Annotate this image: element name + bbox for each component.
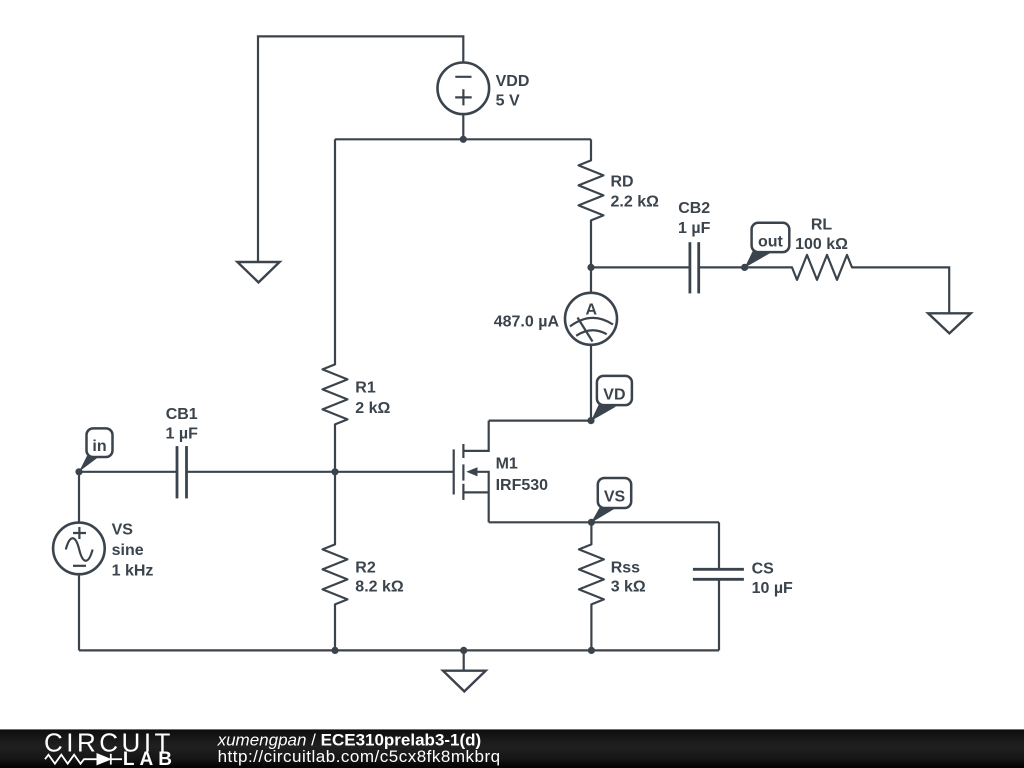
wire source rail to CS [489, 521, 719, 523]
svg-text:10 µF: 10 µF [752, 580, 793, 597]
wire VDD bottom to mid rail [462, 114, 464, 139]
svg-text:http://circuitlab.com/c5cx8fk8: http://circuitlab.com/c5cx8fk8mkbrq [218, 747, 501, 766]
footer bar [0, 729, 1024, 768]
voltage source VDD circle [438, 63, 490, 115]
ground (bottom) [443, 671, 486, 692]
svg-text:VS: VS [604, 488, 626, 505]
node flag in [79, 428, 113, 471]
wire in node to VS top [78, 472, 80, 523]
capacitor CS [693, 569, 744, 579]
wire meter top lead [590, 267, 592, 292]
svg-text:CS: CS [752, 561, 775, 578]
wire RD top lead [590, 139, 592, 160]
wire RD bottom lead [590, 220, 592, 267]
wire bottom ground stem [463, 650, 465, 670]
svg-text:2.2 kΩ: 2.2 kΩ [611, 194, 660, 211]
svg-text:IRF530: IRF530 [496, 477, 549, 494]
wire R2 bottom lead [334, 604, 336, 650]
svg-text:A: A [586, 302, 598, 319]
ground (top left) [237, 262, 279, 282]
wire in node to CB1 [79, 471, 177, 473]
svg-text:8.2 kΩ: 8.2 kΩ [355, 579, 404, 596]
svg-text:LAB: LAB [123, 749, 177, 768]
wire Rss top lead [590, 522, 592, 544]
node junction drain node [587, 264, 594, 271]
node junction in [75, 468, 82, 475]
footer logo resistor-diode glyph [45, 754, 122, 765]
svg-text:M1: M1 [496, 456, 518, 473]
node junction ground stem [460, 647, 467, 654]
wire top rail from left ground to VDD top [258, 36, 463, 262]
ammeter AM1 [565, 293, 617, 345]
node flag out [745, 223, 790, 268]
svg-text:487.0 µA: 487.0 µA [494, 314, 560, 331]
wire out node to RL [745, 266, 792, 268]
svg-text:100 kΩ: 100 kΩ [795, 236, 848, 253]
capacitor CB1 [177, 446, 187, 498]
svg-text:VDD: VDD [496, 73, 530, 90]
resistor R1 [323, 364, 348, 424]
svg-text:CB1: CB1 [166, 406, 198, 423]
svg-text:1 kHz: 1 kHz [112, 562, 154, 579]
svg-text:1 µF: 1 µF [678, 220, 711, 237]
resistor R2 [323, 544, 348, 604]
wire VS bottom to ground rail [78, 574, 80, 650]
svg-text:3 kΩ: 3 kΩ [611, 579, 646, 596]
resistor RD [579, 160, 604, 220]
node junction VDD rail [460, 136, 467, 143]
ground (right) [928, 313, 971, 333]
wire mid rail [335, 138, 591, 140]
svg-text:2 kΩ: 2 kΩ [355, 400, 390, 417]
svg-text:CB2: CB2 [678, 200, 710, 217]
svg-text:1 µF: 1 µF [166, 426, 199, 443]
wire VD rail to drain [489, 420, 591, 422]
voltage source VS circle [53, 523, 105, 575]
node flag VD [591, 376, 632, 421]
capacitor CB2 [690, 242, 699, 293]
wire RL to right ground [852, 267, 949, 313]
wire bottom rail [79, 649, 719, 651]
node junction R2 bottom [331, 647, 338, 654]
wire meter bottom to VD node [590, 345, 592, 421]
svg-text:out: out [758, 233, 784, 250]
svg-text:RL: RL [811, 216, 833, 233]
svg-text:RD: RD [611, 174, 634, 191]
wire Rss bottom lead [590, 604, 592, 650]
svg-text:5 V: 5 V [496, 92, 520, 109]
wire CB2 to out node [699, 266, 745, 268]
wire R1 top lead [334, 139, 336, 364]
resistor RL [792, 255, 852, 280]
wire CS bottom lead [718, 579, 720, 650]
node junction gate node [331, 468, 338, 475]
wire CB1 to gate [187, 471, 454, 473]
svg-text:VS: VS [112, 521, 134, 538]
svg-text:Rss: Rss [611, 559, 640, 576]
node junction out [741, 264, 748, 271]
node flag VS [591, 478, 631, 523]
svg-text:R1: R1 [355, 380, 376, 397]
node junction VD [587, 417, 594, 424]
svg-text:R2: R2 [355, 559, 376, 576]
transistor M1 [454, 421, 489, 523]
wire CS top lead [718, 522, 720, 569]
node junction VS node [588, 519, 595, 526]
svg-text:sine: sine [112, 542, 144, 559]
svg-text:in: in [92, 438, 106, 455]
resistor Rss [579, 544, 604, 604]
wire out rail left [591, 266, 690, 268]
node junction Rss bottom [588, 647, 595, 654]
svg-text:VD: VD [603, 386, 625, 403]
wire R1 bottom to R2 top [334, 424, 336, 544]
